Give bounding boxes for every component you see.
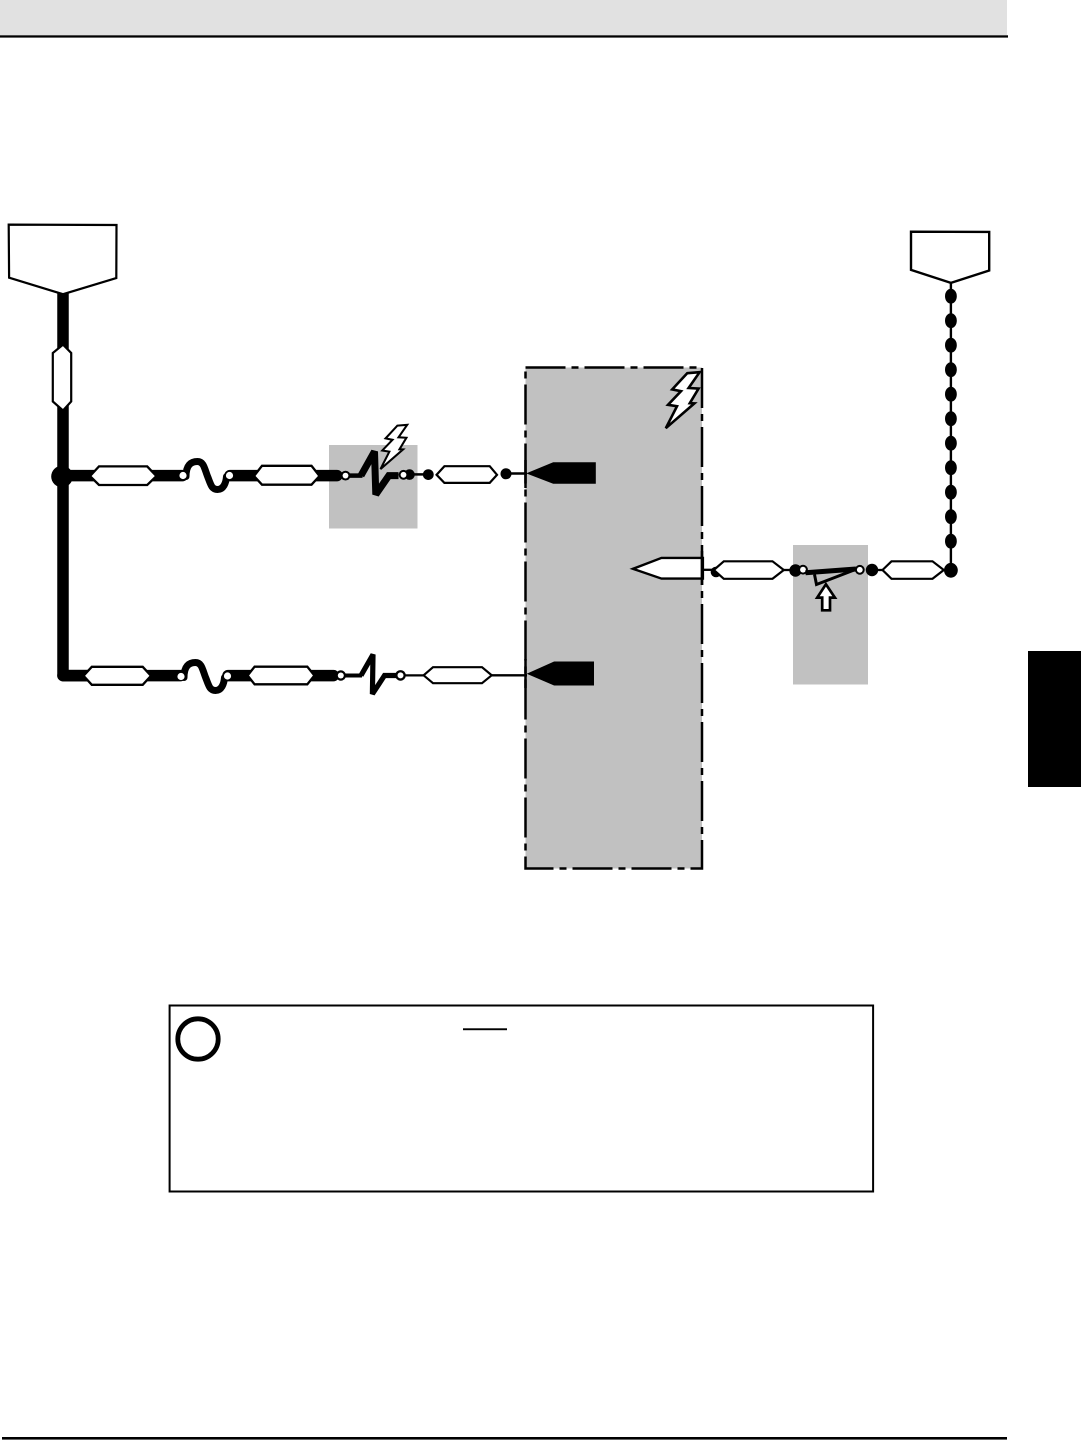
unit pin bullet (bottom)	[527, 662, 594, 686]
lead-in wire to noise point	[349, 473, 363, 478]
spark lightning bolt (small)	[380, 425, 407, 469]
terminal pair: white ring circle + junction dot (top row)	[404, 469, 415, 480]
antenna lead line	[950, 283, 952, 566]
antenna terminal (right pentagon)	[911, 232, 989, 283]
note box	[170, 1006, 874, 1192]
connector pair 1 (bottom row)	[84, 667, 152, 685]
unit box dash-dot border	[526, 368, 703, 869]
wire	[406, 674, 425, 676]
switch right junction dot	[866, 564, 878, 576]
wire	[492, 674, 527, 676]
terminal eyelet white dot 2	[226, 472, 233, 479]
connector pair 2 (top row)	[254, 466, 320, 485]
junction dot	[51, 466, 73, 488]
gray highlight box (noise area)	[329, 445, 418, 529]
connector (thin, top row)	[437, 466, 497, 483]
antenna connector A (thin hexagon)	[714, 561, 784, 579]
connector pair 2 (bottom row)	[248, 667, 315, 685]
top row wire slack loop (squiggle)	[186, 462, 227, 490]
battery terminal (left pentagon)	[9, 225, 117, 295]
footer rule	[2, 1437, 1007, 1440]
wire	[877, 569, 885, 571]
main power wire (left column with elbow to lower row)	[63, 292, 90, 676]
bottom row harness wire segment B	[228, 670, 334, 682]
terminal ring at wire end (bottom row)	[336, 670, 346, 680]
junction dot at antenna jack	[711, 567, 722, 578]
top row harness wire segment B	[230, 470, 337, 482]
connector (thin, bottom row)	[424, 667, 492, 683]
switch blade (open)	[806, 569, 857, 573]
junction dot	[423, 469, 434, 480]
wire	[784, 569, 792, 571]
switch left contact ring	[798, 565, 808, 575]
wire	[944, 569, 951, 571]
switch highlight box	[793, 545, 868, 685]
fusible link (white hexagon on wire)	[53, 345, 71, 411]
unit pin bullet (top)	[526, 462, 596, 484]
antenna lead beads	[945, 289, 957, 549]
antenna jack arrow (white, points left)	[633, 558, 703, 579]
note circle icon	[178, 1019, 218, 1059]
bottom row wire slack loop (squiggle)	[184, 663, 225, 691]
corner junction dot	[944, 563, 958, 578]
connector pair 1 (top row)	[90, 466, 156, 485]
wire	[413, 473, 429, 476]
unit spark lightning bolt (large)	[666, 372, 700, 428]
bottom row harness wire segment A	[63, 670, 181, 682]
wire from unit to antenna connector	[703, 569, 714, 571]
switch right contact ring	[855, 565, 865, 575]
switch left junction dot	[789, 564, 801, 576]
unit box border solid patches at pin crossings	[524, 460, 527, 488]
noise spark gap symbol (bottom row)	[345, 674, 362, 678]
terminal ring at wire end (top row)	[341, 471, 351, 481]
top row harness wire segment A	[62, 470, 183, 482]
wire	[511, 472, 527, 475]
push direction up arrow	[817, 584, 835, 610]
junction dot	[501, 468, 512, 479]
terminal eyelet white dot 1 (bottom)	[177, 673, 184, 680]
header bar	[0, 0, 1007, 35]
header rule	[0, 35, 1008, 37]
terminal eyelet white dot 1	[179, 472, 186, 479]
terminal eyelet white dot 2 (bottom)	[224, 672, 231, 679]
note underline mark	[463, 1028, 507, 1030]
antenna connector B (thin hexagon)	[883, 561, 944, 579]
terminal ring (bottom row right)	[395, 670, 406, 681]
noise spark gap symbol (top row)	[361, 452, 399, 495]
unit box fill (head unit, dash-dot outline drawn later)	[526, 368, 703, 869]
page edge tab	[1028, 651, 1081, 787]
